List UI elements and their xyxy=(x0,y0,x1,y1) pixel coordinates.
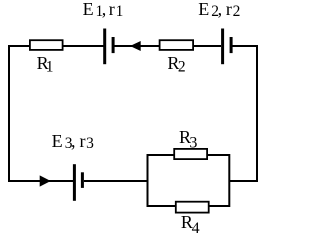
resistor R3 xyxy=(174,149,207,159)
wire R3 branch right xyxy=(208,154,231,156)
resistor R1 xyxy=(30,40,63,50)
svg-text:,: , xyxy=(71,131,76,151)
battery E3 short plate xyxy=(81,172,84,188)
label R1 xyxy=(37,53,54,75)
svg-text:4: 4 xyxy=(192,220,200,235)
wire E1 to R2 xyxy=(114,45,160,47)
battery E2 short plate xyxy=(230,37,233,53)
resistor R2 xyxy=(160,40,194,50)
wire R4 branch right xyxy=(209,205,230,207)
svg-text:r: r xyxy=(80,131,86,151)
current arrow pointing right (middle branch) xyxy=(40,175,51,186)
svg-text:E: E xyxy=(52,131,63,151)
label E3, r3 xyxy=(52,131,95,152)
label E1, r1 xyxy=(83,0,124,20)
label E2, r2 xyxy=(198,0,240,20)
wire right vertical xyxy=(256,45,258,181)
svg-text:E: E xyxy=(198,0,209,19)
wire middle-left with arrow xyxy=(8,180,73,182)
svg-text:2: 2 xyxy=(233,3,241,20)
svg-text:,: , xyxy=(102,0,107,19)
current arrow pointing left (top branch) xyxy=(130,41,141,51)
wire parallel right connector xyxy=(228,154,230,207)
wire E3 to parallel section xyxy=(84,180,149,182)
svg-text:,: , xyxy=(218,0,223,19)
label R4 xyxy=(181,212,200,237)
wire R3 branch left xyxy=(147,154,175,156)
wire R1 to E1 xyxy=(63,45,104,47)
svg-text:1: 1 xyxy=(116,3,124,20)
svg-text:3: 3 xyxy=(189,134,197,151)
battery E1 short plate xyxy=(112,37,115,53)
svg-text:E: E xyxy=(83,0,94,19)
svg-text:2: 2 xyxy=(178,58,186,75)
label R3 xyxy=(179,127,197,152)
svg-text:r: r xyxy=(226,0,232,19)
wire top-left segment xyxy=(8,45,30,47)
wire left vertical xyxy=(8,45,10,182)
wire R2 to E2 xyxy=(193,45,221,47)
resistor R4 xyxy=(176,202,209,213)
wire E2 to top-right corner xyxy=(232,45,258,47)
label R2 xyxy=(167,53,185,75)
svg-text:3: 3 xyxy=(86,135,94,152)
battery E2 long plate xyxy=(221,29,224,65)
wire R4 branch left xyxy=(147,205,176,207)
battery E1 long plate xyxy=(103,29,106,65)
svg-text:1: 1 xyxy=(46,58,54,75)
wire right-middle horizontal xyxy=(229,180,258,182)
wire parallel left connector xyxy=(147,154,149,207)
svg-text:r: r xyxy=(109,0,115,19)
battery E3 long plate xyxy=(73,164,76,201)
